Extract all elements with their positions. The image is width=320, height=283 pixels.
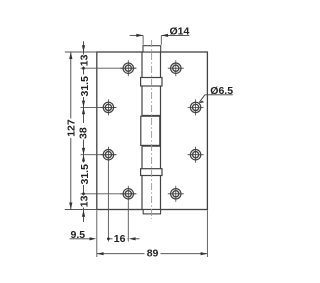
hole H7 bbox=[188, 147, 204, 163]
extension line plate right edge down bbox=[206, 210, 208, 257]
top cap bbox=[143, 46, 161, 52]
chain double arrow row3 bbox=[82, 148, 85, 155]
dimension 9.5 leader bbox=[70, 238, 89, 240]
knuckle junction line upper bbox=[142, 114, 161, 116]
svg-text:38: 38 bbox=[77, 127, 89, 139]
extension line plate left edge down bbox=[96, 210, 98, 257]
label 13 bottom bbox=[79, 196, 90, 208]
dimension 14 line left bbox=[130, 34, 143, 36]
chain arrow above top bbox=[83, 41, 85, 52]
svg-text:9.5: 9.5 bbox=[71, 229, 86, 241]
dimension 16 outside arrow bbox=[129, 237, 136, 240]
chain dot row1 bbox=[82, 67, 85, 70]
dimension 127 label bbox=[65, 119, 76, 139]
svg-text:31.5: 31.5 bbox=[79, 164, 91, 185]
extension line hole col A down bbox=[107, 163, 109, 242]
hole H2 bbox=[100, 99, 116, 115]
svg-text:13: 13 bbox=[79, 54, 91, 66]
dimension 127 line bbox=[70, 52, 72, 210]
label 31.5 top bbox=[80, 75, 91, 98]
dimension 16 line bbox=[108, 238, 128, 240]
label 13 top bbox=[79, 55, 90, 67]
knuckle junction line lower bbox=[142, 145, 161, 147]
extension line pin left (dim 14) bbox=[142, 35, 144, 44]
extension line pin right (dim 14) bbox=[160, 35, 162, 44]
extension line hole row1 bbox=[81, 67, 137, 69]
dimension 89 line bbox=[97, 253, 208, 255]
label 38 bbox=[78, 123, 89, 140]
label 31.5 bottom bbox=[80, 163, 91, 186]
extension line bottom edge bbox=[65, 209, 97, 211]
hole H6 bbox=[188, 99, 204, 115]
middle knuckle bbox=[141, 116, 160, 145]
svg-text:31.5: 31.5 bbox=[79, 76, 91, 97]
extension line top edge (dim 13/127) bbox=[65, 51, 97, 53]
knuckle ring lower bbox=[141, 169, 162, 176]
svg-text:127: 127 bbox=[65, 119, 77, 137]
leader O6.5 bbox=[205, 94, 233, 96]
dimension chain line 13/31.5/38/31.5/13 bbox=[83, 52, 85, 210]
svg-text:16: 16 bbox=[114, 233, 126, 245]
bottom cap bbox=[143, 210, 160, 214]
chain double arrow row2 bbox=[82, 101, 85, 108]
extension line hole row4 bbox=[81, 193, 137, 195]
label 89 bbox=[145, 248, 161, 259]
hinge leaf plate bbox=[97, 52, 208, 210]
hole H3 bbox=[100, 147, 116, 163]
pin center line bbox=[151, 40, 153, 219]
extension line hole row2 bbox=[81, 106, 117, 108]
chain arrow below bottom bbox=[83, 210, 85, 222]
hole H8 bbox=[168, 186, 184, 202]
svg-text:Ø6.5: Ø6.5 bbox=[210, 85, 233, 97]
extension line hole row3 bbox=[81, 154, 117, 156]
hole H4 bbox=[120, 186, 136, 202]
barrel tube bbox=[142, 52, 161, 210]
svg-text:89: 89 bbox=[147, 248, 159, 260]
chain dot row4 bbox=[82, 192, 85, 195]
svg-text:Ø14: Ø14 bbox=[170, 25, 190, 37]
extension line hole col B down bbox=[127, 202, 129, 242]
dimension 14 line right with leader bbox=[161, 34, 189, 36]
svg-text:13: 13 bbox=[79, 195, 91, 207]
hole H1 bbox=[120, 60, 136, 76]
label 16 bbox=[113, 233, 128, 244]
knuckle ring upper bbox=[141, 78, 162, 87]
hole H5 bbox=[168, 60, 184, 76]
